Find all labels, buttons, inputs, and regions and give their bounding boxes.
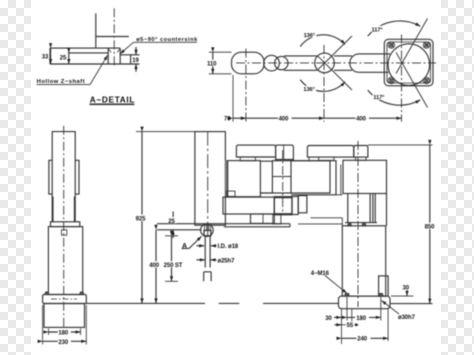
second narrow box [298,196,307,213]
arm1 underside connector [298,195,342,226]
text 400 (top view right) [356,115,370,123]
text 55 [346,321,355,329]
text 136 top [303,31,317,39]
text 400 (front) [149,261,162,269]
elbow limit ray lower [318,56,352,90]
countersink hole left wall [107,48,109,64]
shoulder centerline [401,35,403,122]
elbow housing inner wall [290,161,292,193]
small step right [273,215,281,224]
shoulder flange bolts [348,223,367,226]
dim 55 [335,324,342,326]
svg-text:110: 110 [207,61,217,67]
elbow lower housing thick edges [274,198,292,214]
bolt circle bottom-right [423,77,429,83]
A label underline and leader [182,236,202,248]
flange bolt right [80,292,84,295]
dim 19 arrows [135,47,137,55]
dim 25 arrows [172,212,174,224]
svg-text:Hollow Z−shaft: Hollow Z−shaft [37,79,85,85]
motor cover 2 inner line [283,145,285,159]
flange right step surface [120,55,130,64]
base block [44,304,85,328]
svg-text:ø30h7: ø30h7 [398,315,416,321]
ground reference line [86,302,433,304]
motor cover 1 [236,145,275,157]
left 30 dim [334,316,341,318]
arm end extension line [232,75,234,122]
dim 400 line [155,230,157,304]
dim 19 extension lines [131,55,140,64]
text 25 (front) [168,217,177,225]
dim 180 extension lines [49,329,81,336]
svg-text:19: 19 [132,58,139,64]
dim 850 top extension [368,144,433,146]
countersink hole right wall [119,48,121,64]
svg-text:ø5−90° countersink: ø5−90° countersink [136,37,198,43]
column axis centerline [357,141,359,307]
elbow joint circle [315,53,335,73]
step box under arm2 [251,214,275,223]
Z shaft lower thick walls [53,197,75,222]
Z shaft extended [205,236,210,268]
cover feet [240,157,366,161]
line under quill flange [157,229,202,231]
I.D. 18 arrows [197,245,205,247]
dim 230 extension lines [43,305,87,345]
text 136 bottom [303,86,317,94]
wrist centerline [245,49,247,122]
flange plate bottom surface [50,63,131,65]
svg-text:30: 30 [325,316,332,322]
arm2 bottom-left notch [227,191,236,196]
svg-text:230: 230 [58,340,68,346]
dim 250ST line [171,236,173,281]
shoulder flange line [345,222,377,224]
dim 180 (base bolts) [347,316,381,318]
svg-text:I.D. ø18: I.D. ø18 [218,244,239,250]
bottom dimension line 70/400/400 [233,117,246,119]
4-M16 leader [325,276,347,294]
136 deg arc lower [300,80,345,92]
text 240 [357,335,371,343]
hollow Z-shaft leader [90,55,108,84]
svg-text:180: 180 [356,316,366,322]
svg-text:33: 33 [42,54,49,60]
svg-text:117°: 117° [373,95,385,101]
117 deg arc upper [368,21,421,36]
svg-text:400: 400 [149,263,159,269]
dim 180 line [49,331,81,333]
box under arm2 [223,197,274,214]
body screw [62,230,67,235]
shaft section in circle [204,225,210,231]
bottom extension lines [342,297,389,344]
text 117 bottom [373,94,387,102]
svg-text:136°: 136° [304,33,316,39]
base plate [339,296,391,309]
strip between quill and arm2 [225,160,227,197]
dia 30h7 leader [382,301,400,315]
shaft centerline [113,8,115,67]
text 925 [135,215,148,223]
arm1 box [291,161,336,195]
elbow limit ray upper [318,36,352,70]
coupling cap [51,222,80,227]
arm top connector lines [260,161,272,193]
quill housing [195,132,226,226]
column body [48,227,82,295]
dim 33 dimension line [50,48,52,64]
A detail circle [201,224,214,237]
svg-text:25: 25 [168,219,175,225]
shaft end fitting [204,272,211,282]
117 deg arc lower [368,90,421,105]
svg-text:70: 70 [224,116,231,122]
right 30 dim [391,295,414,297]
hollow Z-shaft boss left wall [95,13,97,48]
svg-text:250 ST: 250 ST [164,263,183,269]
column centerline [63,126,65,330]
dim 850 line [429,145,431,304]
svg-text:25: 25 [60,56,67,62]
shoulder link stadium [350,54,390,72]
elbow housing box [272,161,330,193]
flange horizontal centerline [51,298,77,300]
shoulder limit ray upper [396,19,428,74]
countersink label underline [134,41,198,43]
shoulder limit ray lower [396,52,428,107]
svg-text:850: 850 [425,225,435,231]
dim 925 top extension line [136,131,195,133]
countersink leader [120,42,134,54]
svg-text:180: 180 [58,330,68,336]
dim 110 extension lines [209,52,232,74]
stopper pin block [379,276,389,296]
svg-text:4−M16: 4−M16 [311,271,330,277]
flange plate left edge [49,48,51,64]
horizontal centerline [236,62,436,64]
dia 25h7 arrows [197,259,205,261]
text 250 ST [163,261,186,269]
136 deg arc upper [300,35,345,47]
text 400 (top view left) [278,115,292,123]
narrow box right of elbow housing [292,197,298,215]
dim 230 line [43,340,87,342]
svg-text:A: A [182,243,187,250]
upper arm link bar [334,56,352,70]
shoulder housing circle [388,44,430,86]
flange recess step [69,48,108,53]
dim 240 [342,337,389,339]
base flange inner square [387,42,431,83]
elbow centerline [323,45,325,122]
arm body top edge line [96,36,129,38]
dim 250ST extension ticks [165,236,178,281]
motor cover 4 [354,146,368,158]
flange bolt left [45,292,49,295]
wrist bearing circle [264,55,280,71]
svg-text:ø25h7: ø25h7 [218,258,236,264]
countersink chamfer [108,49,120,53]
forearm link bar [284,56,317,70]
shoulder neck walls [348,194,387,226]
elbow lower housing [274,197,292,215]
A-DETAIL underline [90,103,135,105]
clamp tab right [75,160,79,194]
svg-text:400: 400 [356,116,366,122]
svg-text:A−DETAIL: A−DETAIL [90,95,135,104]
elbow channel division [272,176,291,178]
svg-text:240: 240 [357,337,367,343]
base plate bolt left [345,293,350,296]
svg-text:117°: 117° [372,27,384,33]
arm2 housing box [228,161,261,197]
svg-text:55: 55 [347,323,354,329]
column top box [343,160,387,193]
quill centerline [207,132,209,237]
text 180 (base) [355,314,369,322]
motor cover 3 [307,146,353,158]
svg-text:136°: 136° [303,87,315,93]
arm2 end cap [232,52,265,74]
svg-text:30: 30 [403,286,410,292]
elbow axis centerline [282,150,284,215]
bolt circle bottom-left [388,77,394,83]
bolt circle top-right [423,42,429,48]
forearm boss circle [275,56,288,69]
flange plate top surface [50,47,120,49]
motor cover 2 [276,145,294,159]
Z shaft body [52,132,75,222]
step box inner line [262,214,264,223]
clamp tab left [49,160,52,194]
text 850 [424,223,437,231]
bolt circle top-left [388,42,394,48]
text 230 (left column) [58,338,71,346]
bottom plate [157,224,290,227]
text 180 (left column) [58,329,71,337]
dim 25 dimension line [68,53,70,64]
pedestal [342,226,385,296]
text 110 [207,60,220,68]
base flange square [384,39,433,86]
shaft flange nub [204,230,211,235]
text 117 top [371,26,385,34]
dim 110 dimension line [212,52,214,74]
arm1 right vertical [340,165,342,195]
svg-text:400: 400 [279,116,289,122]
hollow Z-shaft label underline [37,84,90,86]
base flange [43,295,87,304]
base plate bolt right [378,293,383,296]
dim 925 line [141,132,143,304]
svg-text:925: 925 [136,217,146,223]
